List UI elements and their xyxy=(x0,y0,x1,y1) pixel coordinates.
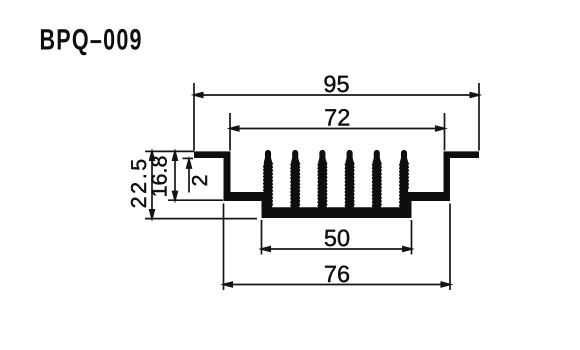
svg-text:2: 2 xyxy=(188,175,212,187)
svg-text:72: 72 xyxy=(324,105,350,131)
svg-text:BPQ–009: BPQ–009 xyxy=(40,23,143,56)
svg-text:16.8: 16.8 xyxy=(147,156,171,198)
svg-text:76: 76 xyxy=(324,261,350,287)
svg-text:95: 95 xyxy=(323,71,349,97)
svg-text:50: 50 xyxy=(324,225,350,251)
